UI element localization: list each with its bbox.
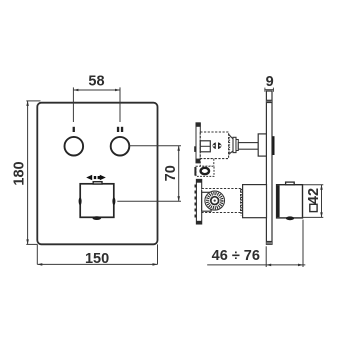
dimension 58 line xyxy=(73,89,120,91)
lower valve body (dashed) xyxy=(202,189,241,213)
square knob rear bar xyxy=(277,185,280,217)
right knob marks II xyxy=(117,127,119,132)
upper valve neck xyxy=(229,134,233,154)
side view: trim plate (9 thick) xyxy=(266,91,272,244)
dimension 70 leader bottom xyxy=(117,200,181,202)
left round knob xyxy=(65,137,84,156)
dimension square42 line xyxy=(321,185,323,218)
upper valve inner hex plug xyxy=(200,141,210,152)
dimension 180 extension top xyxy=(26,100,40,102)
svg-text:46 ÷ 76: 46 ÷ 76 xyxy=(212,248,260,264)
lower valve cylinder to wall xyxy=(243,185,267,218)
check valve ring xyxy=(201,168,209,174)
upper valve body (dashed) xyxy=(200,132,228,159)
square knob (side) xyxy=(277,185,303,218)
square knob bottom clip xyxy=(286,216,294,220)
diverter arrow symbol xyxy=(86,175,92,181)
left knob mark I xyxy=(73,127,75,132)
dimension 58 extension lines xyxy=(72,87,74,122)
lower valve: wall flange strip xyxy=(196,179,201,224)
dimension square42 text xyxy=(310,204,317,211)
dimension 150 line xyxy=(37,263,157,265)
svg-text:150: 150 xyxy=(85,251,109,267)
dimension 46-76 line xyxy=(207,264,305,266)
upper valve lower step xyxy=(200,159,214,167)
front view: wall plate 150x180 xyxy=(37,103,157,245)
dimension square42 extensions xyxy=(303,184,324,186)
check valve block xyxy=(196,166,214,176)
dimension 180 line xyxy=(27,101,29,245)
dimension 46-76 extensions xyxy=(265,246,267,267)
upper valve collar xyxy=(233,137,236,152)
lower flange thread ticks xyxy=(195,185,197,218)
upper valve: wall flange strip xyxy=(196,123,200,163)
square diverter handle (front) xyxy=(80,184,114,218)
right round knob xyxy=(111,137,130,156)
square knob top tab xyxy=(286,182,295,185)
upper valve slotted screw xyxy=(213,142,222,149)
plate top joint xyxy=(266,100,272,103)
upper stem front mark xyxy=(272,136,274,155)
lower valve knurled knob face xyxy=(205,191,225,210)
plate bottom joint xyxy=(266,242,272,245)
dimension 9 line xyxy=(264,89,274,91)
handle left clip xyxy=(79,197,82,205)
lower valve cartridge housing xyxy=(202,192,211,211)
dimension 70 line xyxy=(178,146,180,201)
lower valve knurl column xyxy=(240,189,242,215)
svg-text:180: 180 xyxy=(11,161,27,185)
svg-text:9: 9 xyxy=(266,74,274,90)
dimension 70 leader top xyxy=(129,145,181,147)
upper valve wall boss xyxy=(258,134,266,156)
upper valve stem xyxy=(238,143,258,150)
dimension 180 extension bottom xyxy=(26,243,37,245)
handle top tab xyxy=(93,182,102,184)
dimension 150 extension lines xyxy=(36,244,38,264)
svg-text:58: 58 xyxy=(88,74,104,90)
handle right clip xyxy=(112,197,115,205)
svg-text:42: 42 xyxy=(306,188,322,204)
svg-text:70: 70 xyxy=(163,165,179,181)
handle bottom clip xyxy=(93,216,102,220)
